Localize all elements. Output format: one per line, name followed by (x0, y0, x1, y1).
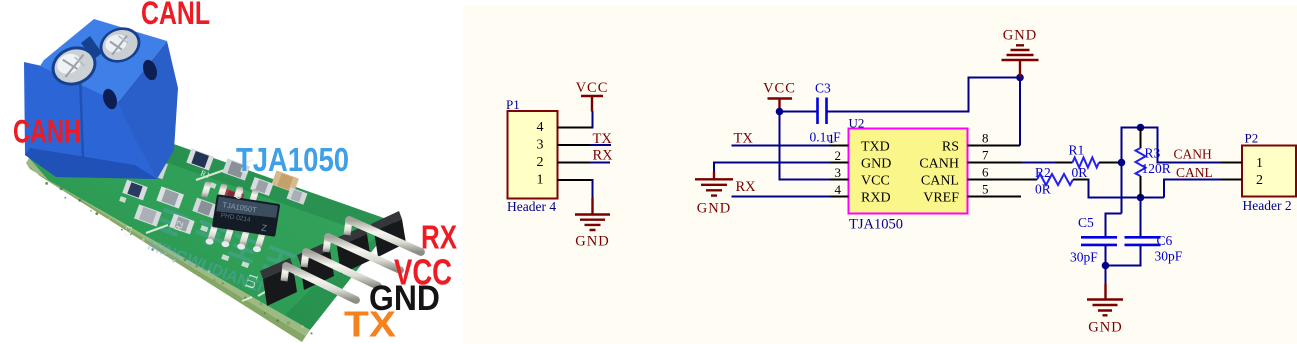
svg-text:1: 1 (828, 131, 835, 146)
ground symbol below P1 (575, 198, 610, 250)
junction CANH after R1 (1118, 159, 1126, 167)
svg-text:CANL: CANL (1176, 165, 1213, 180)
svg-text:RS: RS (942, 140, 959, 155)
wire C3 to GND rail (827, 78, 1021, 112)
IC U2 (849, 116, 968, 233)
wire hole lower (101, 87, 120, 111)
svg-text:RX: RX (736, 179, 757, 195)
PCB side edge (26, 158, 310, 342)
capacitor C6 (1106, 198, 1183, 266)
silkscreen text labels (121, 168, 261, 291)
pin 4 line of P1 (558, 127, 593, 129)
svg-text:30pF: 30pF (1155, 249, 1183, 264)
svg-text:0R: 0R (1035, 182, 1051, 197)
SMD resistor 121 (136, 155, 168, 180)
header pin GND (304, 252, 378, 286)
power port VCC at U2 (763, 81, 796, 111)
svg-text:CANH: CANH (1174, 147, 1213, 162)
svg-text:1: 1 (1256, 156, 1263, 171)
capacitor C5 (1070, 214, 1122, 267)
connector P2 (1242, 131, 1296, 214)
red SMD (221, 189, 245, 208)
block shading (25, 148, 157, 179)
svg-text:8: 8 (982, 131, 989, 146)
PCB top surface (29, 104, 395, 330)
svg-text:0R: 0R (1072, 165, 1088, 180)
U2 left pin numbers (835, 148, 842, 197)
svg-text:VCC: VCC (763, 81, 796, 97)
svg-text:2: 2 (1256, 173, 1263, 188)
svg-text:120R: 120R (1142, 161, 1171, 176)
header pin RX (347, 220, 421, 252)
svg-text:CANL: CANL (921, 174, 959, 189)
junction C5/C6 to GND (1102, 262, 1110, 270)
terminal block front face (24, 62, 157, 179)
watermark (145, 206, 295, 304)
capacitor C3 (810, 81, 842, 145)
svg-text:GND: GND (1088, 320, 1122, 336)
svg-text:TJA1050: TJA1050 (849, 217, 903, 233)
svg-text:TJA1050: TJA1050 (236, 141, 349, 178)
svg-text:R3: R3 (1145, 146, 1161, 161)
screw 1 (lower) (46, 40, 103, 92)
svg-text:TX: TX (734, 131, 754, 147)
svg-text:GND: GND (861, 157, 891, 172)
junction at GND rail (1016, 74, 1024, 82)
svg-text:30pF: 30pF (1070, 250, 1098, 265)
svg-text:4: 4 (835, 182, 842, 197)
screw slot groove (81, 36, 102, 60)
svg-text:C3: C3 (815, 81, 831, 96)
svg-text:CANH: CANH (919, 157, 959, 172)
pin 3 line of P1 (558, 144, 590, 146)
SMD caps row (186, 148, 214, 170)
screw 2 (upper) (94, 21, 146, 68)
svg-text:RX: RX (593, 147, 614, 163)
P2 pin 2 line (1221, 179, 1243, 181)
svg-text:VREF: VREF (923, 191, 959, 206)
wire hole upper (141, 58, 160, 82)
svg-text:CANH: CANH (13, 114, 81, 150)
svg-text:VCC: VCC (861, 174, 890, 189)
wire GND rail down to U2 pin8 (1019, 78, 1021, 146)
U2 right pin numbers (982, 131, 989, 197)
junction VCC/C3 (776, 108, 784, 116)
svg-text:VCC: VCC (576, 80, 609, 96)
svg-text:2: 2 (835, 148, 842, 163)
svg-text:6: 6 (982, 165, 989, 180)
U2 left pin lines (830, 146, 849, 197)
ground symbol at U2 pin2 (695, 172, 733, 217)
svg-text:0.1uF: 0.1uF (810, 130, 842, 145)
svg-text:RXD: RXD (861, 191, 891, 206)
svg-text:Header 4: Header 4 (507, 199, 556, 214)
power port VCC at P1 (576, 80, 609, 112)
wire TX stub at P1 (590, 144, 612, 146)
wire CANL rail up to P2 pin2 (1164, 180, 1221, 198)
schematic background (463, 5, 1297, 344)
svg-text:3: 3 (537, 138, 544, 153)
pin header black bases (263, 219, 406, 306)
svg-text:Header 2: Header 2 (1243, 198, 1292, 213)
svg-text:CANL: CANL (141, 0, 210, 31)
svg-text:RX: RX (421, 219, 457, 256)
wire TX to U2 pin1 (732, 145, 831, 147)
wire VCC down to U2 pin3 (780, 110, 831, 180)
svg-text:TXD: TXD (861, 140, 890, 155)
header pin TX (284, 266, 356, 300)
svg-text:GND: GND (1003, 28, 1037, 44)
wire VCC to pin4 (592, 111, 594, 129)
resistor R1 (1055, 143, 1119, 181)
wire RX stub at P1 (590, 162, 611, 164)
P2 pin 1 line (1221, 162, 1243, 164)
wire U2 pin2 to GND (714, 163, 830, 173)
terminal block top face (40, 19, 167, 102)
svg-text:1: 1 (537, 173, 544, 188)
wire RX to U2 pin4 (732, 196, 831, 198)
svg-text:5: 5 (982, 182, 989, 197)
IC U1 SOIC-8 (194, 181, 282, 255)
resistor R3 (1136, 128, 1171, 198)
ground symbol top right (1002, 28, 1039, 78)
svg-text:3: 3 (835, 165, 842, 180)
svg-text:P2: P2 (1245, 131, 1259, 146)
ground symbol bottom right (1087, 284, 1123, 336)
junction R3 top (1137, 124, 1145, 132)
pin 2 line of P1 (558, 162, 590, 164)
svg-text:C5: C5 (1078, 215, 1094, 230)
svg-text:2: 2 (537, 155, 544, 170)
U2 pin 8 line (968, 145, 1021, 147)
svg-text:R1: R1 (1069, 143, 1085, 158)
svg-text:4: 4 (537, 120, 544, 135)
wire junction to GND (1105, 266, 1107, 286)
U2 pin 5 line (968, 196, 1022, 198)
junction R3 bottom (1137, 194, 1145, 202)
U2 pin 6 line (968, 179, 1038, 181)
header pin VCC (326, 237, 400, 270)
wire R2 down to CANL rail (1089, 179, 1165, 198)
svg-text:TX: TX (344, 304, 396, 344)
PCB darker margin (52, 104, 395, 238)
svg-text:P1: P1 (506, 97, 520, 112)
svg-text:7: 7 (982, 148, 989, 163)
terminal block right slope face (118, 41, 178, 179)
resistor R2 (1035, 165, 1089, 197)
wire VCC to C3 (780, 111, 817, 113)
wire pin7 to R1 (1021, 162, 1055, 164)
wire pin1 to GND (592, 179, 594, 199)
svg-text:GND: GND (575, 234, 609, 250)
silkscreen outline near chip (146, 160, 306, 301)
wire CANH vertical (1122, 128, 1221, 214)
connector P1 (506, 97, 558, 214)
svg-text:GND: GND (697, 201, 731, 217)
pin 1 line of P1 (558, 179, 593, 181)
U2 pin 7 line (968, 162, 1022, 164)
